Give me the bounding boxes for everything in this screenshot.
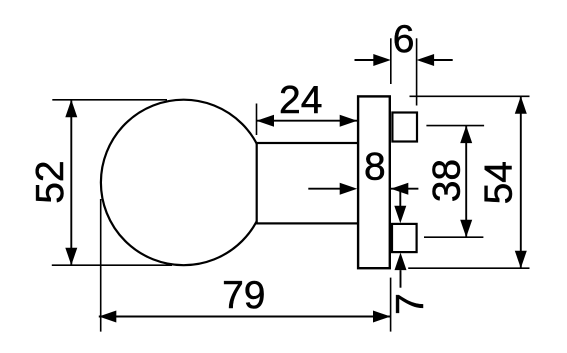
dim 54 arrow down [515,251,527,269]
knob neck (covers hidden ball arc) [257,143,358,223]
dim 8 right tail [390,188,418,190]
svg-text:7: 7 [389,293,432,315]
dim 79 extension line right [390,278,392,332]
svg-text:24: 24 [279,79,322,122]
flange rectangle [358,96,390,268]
dim 38 extension line bottom [424,236,483,238]
dim 54 line [520,96,522,268]
dim 6 extension line right [416,38,418,105]
top square spindle stub [392,113,417,142]
square stub height arrow down [399,189,401,208]
dim 24 arrow left [257,115,275,127]
svg-text:54: 54 [478,161,521,204]
svg-text:8: 8 [364,146,386,189]
svg-text:79: 79 [222,274,265,317]
dim 52 line [70,100,72,265]
dim 79 arrow left [99,311,117,323]
dim 38 extension line top [426,125,484,127]
svg-text:38: 38 [426,159,469,202]
dim 8 arrow pointing right [340,183,358,195]
dim 54 extension line bottom [408,267,529,269]
dim 52 arrow down [65,248,77,266]
bottom square spindle stub [392,224,417,252]
dim 6 right tail [429,59,453,61]
dim 24 line [257,120,359,122]
dim 79 arrow right [373,311,391,323]
dim 6 arrow pointing right [373,54,391,66]
dim 6 left tail [355,59,379,61]
dim 38 arrow down [460,220,472,238]
dim 79 line [99,316,391,318]
dim 54 arrow up [515,96,527,114]
dim 38 line [465,126,467,238]
dim 52 extension line top [52,99,167,101]
dim 24 arrow right [340,115,358,127]
dim 54 extension line top [410,95,530,97]
svg-text:6: 6 [393,18,415,61]
dim 8 arrow pointing left [391,183,409,195]
svg-text:52: 52 [29,160,72,203]
dim 8 left tail [308,188,343,190]
dim 52 extension line bottom [52,264,172,266]
dim 52 arrow up [65,100,77,118]
dim 6 extension line left [390,38,392,84]
dim 38 arrow up [460,126,472,144]
dim 79 extension line left [100,199,102,332]
knob ball outline [101,100,267,266]
square stub height arrow up [395,253,407,271]
dim 6 arrow pointing left [417,54,435,66]
dim 24 extension line left [256,104,258,136]
